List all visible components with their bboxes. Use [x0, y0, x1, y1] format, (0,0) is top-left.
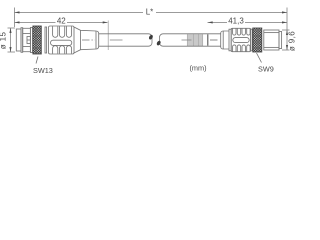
svg-text:ø 9,6: ø 9,6: [288, 31, 297, 51]
svg-text:42: 42: [57, 16, 66, 25]
svg-text:(mm): (mm): [190, 64, 207, 73]
svg-text:L*: L*: [146, 7, 154, 16]
svg-text:ø 15: ø 15: [0, 32, 8, 50]
svg-text:SW9: SW9: [258, 65, 274, 74]
svg-text:41,3: 41,3: [228, 16, 244, 25]
svg-text:SW13: SW13: [33, 66, 53, 75]
